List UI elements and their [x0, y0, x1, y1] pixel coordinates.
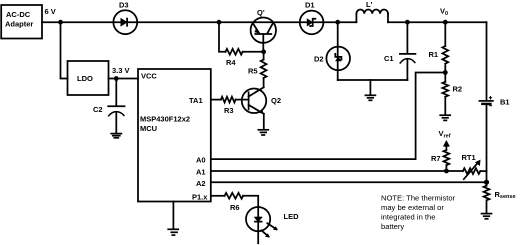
- wire R4 branch: [219, 22, 226, 52]
- resistor R4: [226, 49, 243, 67]
- battery B1: [479, 97, 509, 107]
- ground under C2: [111, 134, 121, 138]
- svg-text:L': L': [366, 0, 373, 9]
- node junction top rail / R4 branch: [217, 20, 222, 25]
- wire R3 to Q2 base: [236, 99, 249, 101]
- svg-text:D2: D2: [314, 55, 324, 64]
- svg-text:MSP430F12x2: MSP430F12x2: [140, 115, 190, 124]
- svg-text:R2: R2: [453, 85, 463, 94]
- resistor R2: [442, 82, 462, 97]
- svg-text:A0: A0: [196, 156, 206, 165]
- svg-text:R4: R4: [226, 58, 236, 67]
- wire main top rail: [42, 21, 487, 23]
- ground on bottom rail: [365, 95, 375, 100]
- LED: [246, 207, 299, 238]
- svg-text:C1: C1: [384, 54, 394, 63]
- svg-text:6 V: 6 V: [45, 7, 56, 16]
- resistor R7: [431, 150, 449, 165]
- wire right rail bottom (battery to Rsense junction): [486, 105, 488, 186]
- svg-text:AC-DC: AC-DC: [6, 10, 31, 19]
- capacitor C1: [384, 22, 415, 80]
- svg-text:NOTE: The thermistor: NOTE: The thermistor: [381, 194, 456, 203]
- svg-text:A2: A2: [196, 179, 206, 188]
- thermistor RT1: [462, 153, 481, 179]
- svg-text:D3: D3: [119, 1, 129, 10]
- svg-text:P1.x: P1.x: [192, 192, 208, 201]
- svg-text:V0: V0: [440, 7, 448, 18]
- AC-DC adapter box: [1, 5, 42, 39]
- svg-text:battery: battery: [381, 222, 404, 231]
- node junction L/C1: [405, 20, 410, 25]
- svg-text:R7: R7: [431, 154, 441, 163]
- wire R4 to junction: [243, 51, 264, 53]
- svg-text:C2: C2: [93, 105, 103, 114]
- wire Rsense to ground: [486, 200, 488, 213]
- wire LDO output to MCU VCC: [109, 78, 139, 80]
- svg-text:R3: R3: [224, 106, 234, 115]
- svg-text:Q2: Q2: [271, 96, 281, 105]
- wire A1 route: [211, 170, 463, 172]
- wire R7 bottom lead: [445, 165, 447, 171]
- svg-text:TA1: TA1: [189, 96, 203, 105]
- svg-text:Rsense: Rsense: [495, 190, 516, 200]
- capacitor C2: [93, 79, 125, 133]
- node junction D1/D2/L: [335, 20, 340, 25]
- svg-text:Q': Q': [257, 8, 265, 17]
- MCU MSP430F12x2 box: [138, 69, 211, 202]
- svg-text:MCU: MCU: [140, 124, 157, 133]
- inductor L': [356, 0, 388, 22]
- node junction R7/A1/RT1: [444, 169, 449, 174]
- svg-text:Adapter: Adapter: [5, 20, 33, 29]
- svg-text:LED: LED: [284, 212, 300, 221]
- wire R2 bottom lead: [444, 97, 446, 115]
- wire MCU ground stub: [172, 202, 174, 229]
- svg-text:Vref: Vref: [439, 129, 451, 140]
- node junction A2/Rsense: [484, 180, 489, 185]
- diode D2: [314, 47, 350, 71]
- wire R6 to LED: [243, 196, 258, 244]
- Vref arrow: [443, 140, 450, 147]
- wire ground stub on bottom rail: [369, 80, 371, 95]
- ground under MCU: [168, 229, 178, 235]
- svg-text:R5: R5: [248, 67, 258, 76]
- wire RT1 to rail: [480, 170, 486, 172]
- svg-text:RT1: RT1: [462, 153, 476, 162]
- svg-text:B1: B1: [500, 98, 510, 107]
- wire R5 leads: [263, 52, 265, 88]
- wire R1 top lead: [444, 22, 446, 46]
- wire Q' base down: [262, 34, 264, 52]
- node junction R1/R2/A0: [443, 70, 448, 75]
- svg-text:D1: D1: [305, 1, 315, 10]
- node junction Vo / R1: [443, 20, 448, 25]
- wire A2 route: [211, 181, 487, 183]
- diode D3: [113, 1, 137, 35]
- ground under Rsense: [482, 214, 492, 219]
- svg-text:may be external or: may be external or: [381, 203, 444, 212]
- wire D2 branch down: [337, 22, 339, 80]
- wire P1.x to R6: [211, 195, 225, 197]
- node junction adapter/LDO: [58, 20, 63, 25]
- svg-text:LDO: LDO: [77, 74, 93, 83]
- resistor R3: [221, 97, 236, 115]
- wire Q2 emitter to ground: [263, 114, 265, 129]
- node junction LDO out / C2: [114, 76, 119, 81]
- resistor R5: [248, 60, 267, 79]
- transistor Q2 (NPN): [242, 87, 281, 114]
- svg-text:integrated in the: integrated in the: [381, 213, 435, 222]
- ground under R2: [440, 115, 450, 120]
- resistor R1: [429, 46, 449, 64]
- note text block: [381, 194, 456, 232]
- node junction R4/R5/Q' base: [261, 49, 266, 54]
- wire bottom rail of buck stage: [338, 79, 408, 81]
- diode D1: [300, 1, 324, 35]
- svg-text:R1: R1: [429, 50, 439, 59]
- wire junction to LDO input: [61, 22, 68, 78]
- svg-text:VCC: VCC: [141, 72, 157, 81]
- svg-text:3.3 V: 3.3 V: [112, 66, 130, 75]
- resistor Rsense: [484, 186, 516, 201]
- wire A0 route: [211, 73, 445, 160]
- ground under Q2: [258, 130, 268, 135]
- svg-text:A1: A1: [196, 168, 206, 177]
- wire R1 bottom lead: [444, 64, 446, 82]
- resistor R6: [225, 193, 244, 212]
- transistor Q' (PNP): [251, 8, 276, 43]
- svg-text:R6: R6: [230, 203, 240, 212]
- wire right rail top (Vo to battery): [486, 22, 488, 100]
- wire TA1 to R3: [211, 99, 221, 101]
- LDO regulator box: [68, 61, 109, 95]
